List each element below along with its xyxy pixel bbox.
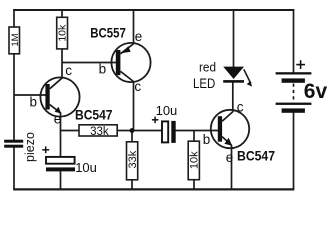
svg-text:33k: 33k xyxy=(127,150,139,168)
transistor Q2 BC557 xyxy=(111,43,150,82)
svg-text:e: e xyxy=(54,112,62,127)
wire battery top lead xyxy=(293,9,295,72)
piezo element xyxy=(4,132,37,162)
wire 10k2 bottom lead xyxy=(193,180,195,190)
wire left rail lower (piezo to bottom rail) xyxy=(13,147,15,189)
svg-text:10k: 10k xyxy=(57,24,69,42)
svg-text:1M: 1M xyxy=(10,33,21,46)
wire 10k bottom / Q1 collector vertical xyxy=(61,49,63,78)
svg-text:e: e xyxy=(135,29,143,44)
wire Q1 base lead xyxy=(14,94,46,96)
resistor 1M xyxy=(9,27,21,54)
svg-text:c: c xyxy=(134,79,141,94)
wire LED to Q3 collector xyxy=(232,82,234,112)
wire battery bottom lead xyxy=(293,112,295,190)
wire BC557 collector lead xyxy=(133,81,135,131)
wire mid node: emitter to 33k xyxy=(60,130,80,132)
wire Q1 emitter vertical to cap xyxy=(60,113,62,157)
svg-text:BC547: BC547 xyxy=(75,107,113,123)
node junction dot xyxy=(130,128,135,133)
wire top positive rail xyxy=(13,9,294,11)
wire 33k vertical bottom lead xyxy=(131,180,133,190)
resistor 10k (base Q3) xyxy=(188,141,200,180)
capacitor 10u (emitter, vertical) xyxy=(42,146,97,174)
svg-text:b: b xyxy=(99,62,107,77)
svg-text:10u: 10u xyxy=(156,103,178,118)
svg-text:e: e xyxy=(226,150,234,165)
wire BC557 emitter lead xyxy=(133,9,135,44)
svg-text:b: b xyxy=(203,132,211,147)
wire cap1 bottom lead xyxy=(60,171,62,189)
svg-text:LED: LED xyxy=(193,76,215,92)
svg-text:10k: 10k xyxy=(189,151,201,169)
wire 33k vertical top lead xyxy=(131,131,133,143)
wire 10k2 top lead xyxy=(193,131,195,142)
wire 33k to junction to cap xyxy=(117,130,162,132)
resistor 10k (collector load Q1) xyxy=(57,17,69,49)
wire bottom ground rail xyxy=(13,188,294,190)
svg-text:33k: 33k xyxy=(90,126,109,138)
wire Q3 emitter lead xyxy=(231,145,233,189)
wire left rail middle (1M bottom to piezo) xyxy=(13,54,15,141)
svg-text:BC557: BC557 xyxy=(90,25,126,41)
svg-text:BC547: BC547 xyxy=(237,148,275,164)
wire LED top lead xyxy=(233,9,235,67)
wire 10k top lead xyxy=(61,10,63,18)
svg-text:piezo: piezo xyxy=(23,132,37,162)
svg-text:red: red xyxy=(199,60,216,75)
resistor 33k vertical xyxy=(127,142,139,180)
wire cap to Q3 base xyxy=(176,130,219,132)
svg-text:c: c xyxy=(65,63,72,78)
wire left rail upper (to 1M top) xyxy=(13,9,15,27)
battery 6v xyxy=(276,60,312,113)
LED red xyxy=(223,67,252,87)
transistor Q3 BC547 xyxy=(211,110,249,148)
resistor 33k horizontal xyxy=(79,125,117,138)
svg-text:10u: 10u xyxy=(75,160,97,175)
svg-text:6v: 6v xyxy=(304,80,328,103)
svg-text:c: c xyxy=(237,99,244,114)
capacitor 10u (coupling, horizontal) xyxy=(152,103,177,143)
transistor Q1 BC547 xyxy=(40,77,79,116)
svg-text:b: b xyxy=(30,95,38,110)
wire Q1-collector to BC557 base xyxy=(62,62,116,64)
